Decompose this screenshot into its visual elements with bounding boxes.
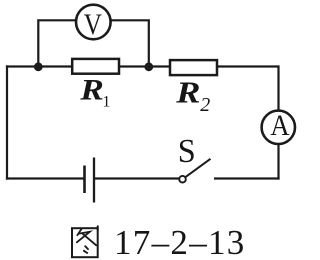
caption character 图 (drawn) (72, 226, 98, 257)
node A junction dot (34, 62, 43, 71)
switch S pivot circle (179, 176, 186, 183)
svg-text:R: R (175, 76, 200, 110)
wire: bottom right horizontal, switch to right corner (214, 177, 280, 179)
wire: battery to switch pivot (94, 177, 180, 179)
voltmeter letter V (84, 7, 102, 41)
wire: ammeter to bottom-right corner (277, 144, 279, 179)
svg-text:S: S (178, 132, 196, 170)
wire: between R1 and R2 (118, 65, 171, 67)
svg-text:17–2–13: 17–2–13 (114, 223, 246, 260)
resistor R2 label (175, 76, 210, 116)
svg-text:2: 2 (200, 94, 210, 116)
wire: voltmeter branch right (V over and down to node B) (110, 20, 149, 66)
resistor R1 body (72, 59, 119, 74)
wire: left vertical side of main loop (6, 65, 8, 179)
ammeter A (meter circle) (262, 111, 295, 144)
battery cell: short plate (negative) (83, 166, 86, 194)
switch label S (178, 132, 196, 170)
wire: right vertical, corner down to ammeter (277, 65, 279, 110)
svg-text:V: V (84, 7, 102, 41)
resistor R2 body (170, 60, 217, 75)
voltmeter V (meter circle) (76, 5, 111, 40)
wire: bottom left horizontal, left edge to battery (6, 177, 85, 179)
battery cell: long plate (positive) (93, 158, 95, 203)
wire: voltmeter branch left (node A up and over to V) (38, 20, 76, 66)
switch S lever arm (185, 159, 210, 177)
caption text 17-2-13 (114, 223, 246, 260)
wire: top main horizontal, left edge to R1 (6, 65, 73, 67)
resistor R1 label (79, 74, 110, 110)
svg-text:1: 1 (102, 93, 110, 110)
wire: R2 to top-right corner (216, 65, 279, 67)
svg-text:R: R (79, 74, 104, 107)
ammeter letter A (270, 110, 290, 143)
svg-text:A: A (270, 110, 290, 143)
node B junction dot (144, 62, 153, 71)
